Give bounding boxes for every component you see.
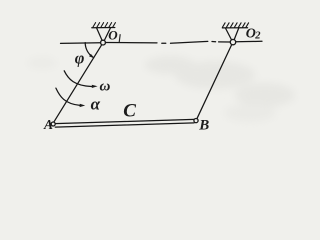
- svg-text:φ: φ: [75, 48, 85, 67]
- svg-text:α: α: [91, 94, 101, 113]
- svg-text:C: C: [123, 101, 136, 122]
- svg-text:B: B: [198, 118, 209, 134]
- svg-text:2: 2: [254, 31, 261, 42]
- svg-text:ω: ω: [100, 78, 111, 94]
- svg-text:A: A: [43, 117, 53, 132]
- svg-text:O: O: [108, 28, 118, 43]
